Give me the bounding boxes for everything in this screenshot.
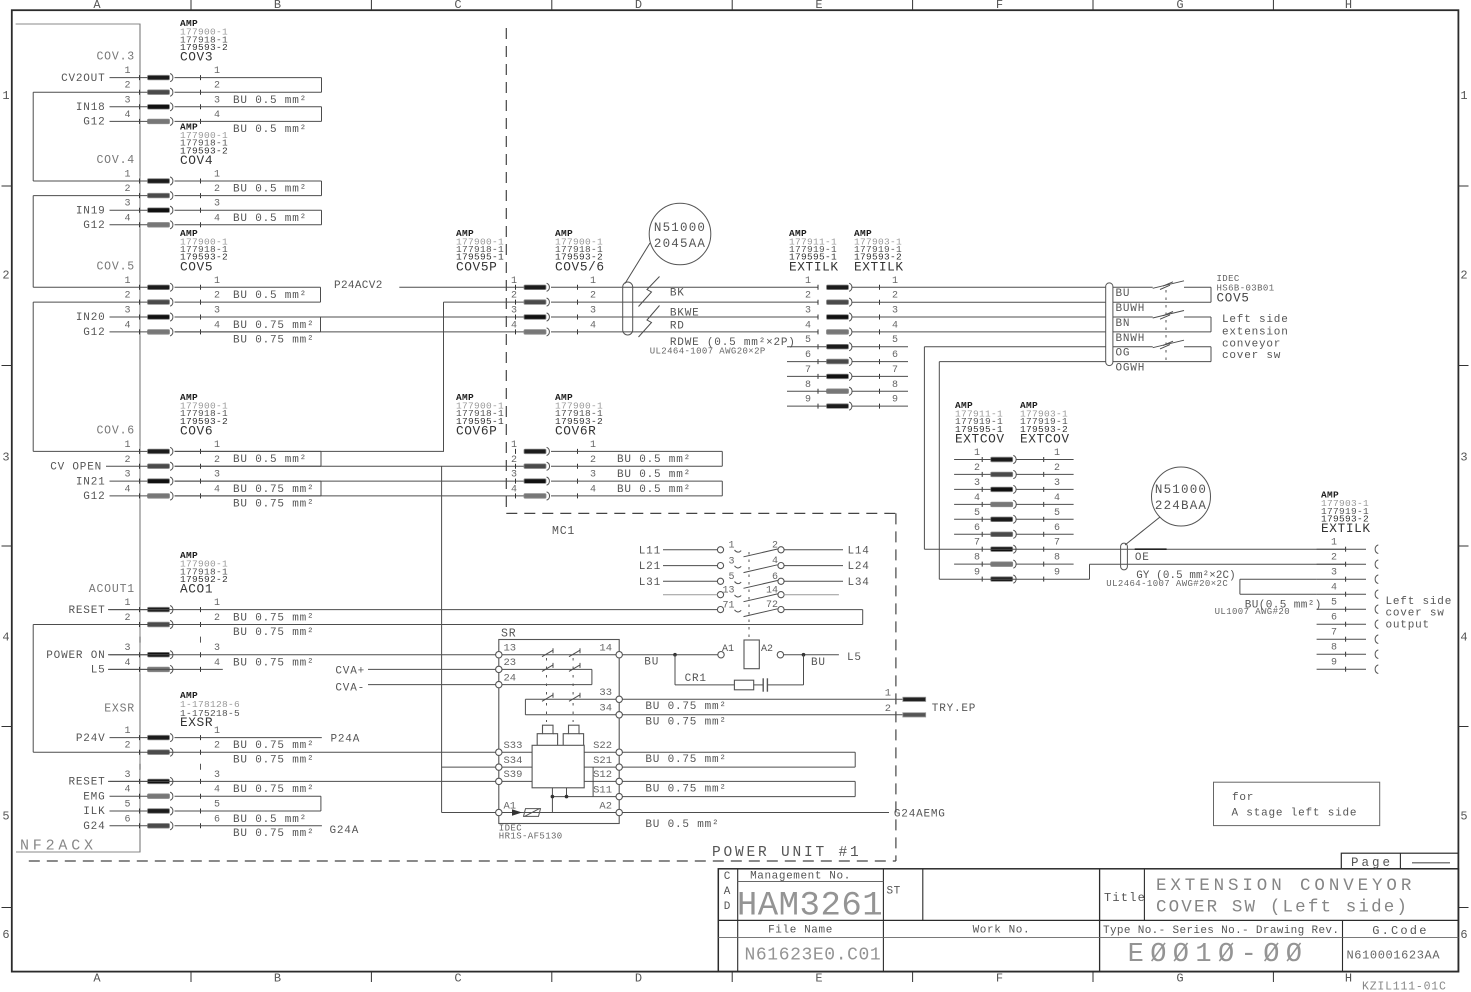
svg-text:5: 5 <box>124 800 130 811</box>
jumper loop COV5 1-2 <box>175 286 321 288</box>
svg-text:EMG: EMG <box>83 791 105 803</box>
svg-text:BU 0.5 mm²: BU 0.5 mm² <box>233 184 307 196</box>
EXTILK right stubs rows5-9 <box>852 346 908 348</box>
wire CV OPEN vertical x=441.6 down to SR <box>441 466 443 812</box>
jumper loop COV3 1-2 <box>175 77 322 79</box>
svg-text:N61623E0.C01: N61623E0.C01 <box>745 946 882 966</box>
svg-text:TRY.EP: TRY.EP <box>932 703 976 715</box>
svg-text:EXSR: EXSR <box>104 702 135 715</box>
svg-text:L31: L31 <box>639 577 661 589</box>
connector COV6P pin 2 <box>524 464 546 469</box>
svg-text:COV6R: COV6R <box>555 423 596 438</box>
connector EXSR pin 6 <box>148 824 170 829</box>
svg-text:BNWH: BNWH <box>1116 333 1146 345</box>
svg-text:G12: G12 <box>83 327 105 339</box>
svg-text:N51000: N51000 <box>1155 483 1207 497</box>
svg-text:72: 72 <box>766 600 778 611</box>
svg-text:2: 2 <box>590 455 596 466</box>
wires COV5/6 rows1-4 to EXTILK <box>551 286 818 288</box>
SR terminal S39 <box>496 778 502 784</box>
svg-text:3: 3 <box>124 199 130 210</box>
svg-text:CV OPEN: CV OPEN <box>50 461 102 473</box>
svg-text:14: 14 <box>766 585 778 596</box>
connector COV5 pin 1 <box>148 285 170 290</box>
connector EXTILK-out pin 5 <box>1345 607 1347 612</box>
svg-text:6: 6 <box>1331 613 1337 624</box>
svg-text:4: 4 <box>214 213 220 224</box>
svg-text:2: 2 <box>1460 269 1467 283</box>
svg-text:1: 1 <box>974 448 980 459</box>
svg-text:G24AEMG: G24AEMG <box>894 809 946 821</box>
svg-text:BUWH: BUWH <box>1116 303 1146 315</box>
connector EXSR pin 2 <box>148 750 170 755</box>
svg-text:3: 3 <box>590 306 596 317</box>
svg-text:RESET: RESET <box>68 605 105 617</box>
svg-text:3: 3 <box>124 470 130 481</box>
connector EXTCOV pin 5 <box>991 517 1013 522</box>
wire MC1 coil A2 to L5 <box>784 654 839 656</box>
wire to SR.A1 <box>442 812 496 814</box>
svg-text:3: 3 <box>805 306 811 317</box>
wire P24ACV2 COV5P.1 segment <box>399 286 524 288</box>
svg-text:cover sw: cover sw <box>1222 350 1281 362</box>
svg-text:BU: BU <box>811 657 826 669</box>
svg-text:EXTCOV: EXTCOV <box>955 432 1005 447</box>
svg-text:4: 4 <box>1460 631 1467 645</box>
svg-text:S39: S39 <box>504 769 523 781</box>
svg-text:NF2ACX: NF2ACX <box>20 838 97 855</box>
svg-text:9: 9 <box>892 395 898 406</box>
terminal TRY.EP 2 <box>903 713 926 717</box>
svg-text:COV3: COV3 <box>180 50 213 65</box>
connector COV6 pin 2 <box>148 464 170 469</box>
svg-text:1: 1 <box>124 276 130 287</box>
cable capsule to cover switch <box>1106 283 1113 366</box>
svg-text:HAM3261: HAM3261 <box>737 888 883 926</box>
EXTILK right wires rows1-4 to switch cable <box>852 286 1106 288</box>
contactor MC1 pole 5 <box>717 607 723 613</box>
svg-text:OGWH: OGWH <box>1116 362 1146 374</box>
svg-text:CR1: CR1 <box>685 673 707 685</box>
svg-text:4: 4 <box>214 658 220 669</box>
wire SR.33 to TRY.EP 1 <box>622 698 903 700</box>
SR terminal S11 <box>616 793 622 799</box>
connector COV6P pin 3 <box>524 479 546 484</box>
svg-text:UL2464-1007 AWG#20×2C: UL2464-1007 AWG#20×2C <box>1106 579 1228 589</box>
wire EXSR.2 to SR.S33 <box>33 751 495 753</box>
svg-text:5: 5 <box>1054 508 1060 519</box>
wire CV OPEN COV6.2 right <box>175 465 525 467</box>
jumper loop COV5 3-4 <box>175 316 321 318</box>
svg-text:Page: Page <box>1351 856 1393 870</box>
svg-text:BU 0.5 mm²: BU 0.5 mm² <box>617 454 691 466</box>
svg-text:S34: S34 <box>504 755 523 767</box>
svg-text:1: 1 <box>590 440 596 451</box>
svg-text:BU 0.75 mm²: BU 0.75 mm² <box>233 754 314 766</box>
svg-text:L34: L34 <box>848 577 870 589</box>
svg-text:IN20: IN20 <box>76 312 106 324</box>
svg-text:ST: ST <box>887 886 901 898</box>
page box <box>1341 853 1458 869</box>
connector EXSR pin 3 <box>148 779 170 784</box>
wire chain COV5.2 to COV6.1 <box>33 301 147 303</box>
svg-text:6: 6 <box>805 350 811 361</box>
svg-text:G24A: G24A <box>330 825 360 837</box>
wire chain COV4.2 to COV5.1 <box>33 195 147 197</box>
svg-text:G24: G24 <box>83 821 105 833</box>
svg-text:Title: Title <box>1104 891 1146 905</box>
svg-text:BU 0.75 mm²: BU 0.75 mm² <box>233 484 314 496</box>
svg-text:1: 1 <box>805 276 811 287</box>
svg-text:N51000: N51000 <box>654 221 706 235</box>
svg-text:COV5/6: COV5/6 <box>555 259 605 274</box>
svg-text:L5: L5 <box>847 652 862 664</box>
svg-text:2: 2 <box>511 455 517 466</box>
svg-text:C: C <box>454 972 461 986</box>
svg-text:4: 4 <box>1331 583 1337 594</box>
connector COV6P pin 1 <box>524 449 546 454</box>
svg-text:ACO1: ACO1 <box>180 582 213 597</box>
jumper loop SR S12-S11 <box>622 780 855 782</box>
svg-text:BU 0.5 mm²: BU 0.5 mm² <box>233 124 307 136</box>
connector EXTCOV pin 9 <box>991 577 1013 582</box>
wire RESET ACO1.1 to MC1.71 <box>108 609 718 611</box>
svg-text:BU 0.5 mm²: BU 0.5 mm² <box>617 469 691 481</box>
SR terminal 13 <box>496 652 502 658</box>
svg-text:1: 1 <box>124 440 130 451</box>
svg-text:L5: L5 <box>91 665 106 677</box>
svg-text:2: 2 <box>772 540 778 551</box>
SR terminal 23 <box>496 666 502 672</box>
svg-text:8: 8 <box>1054 553 1060 564</box>
svg-text:B: B <box>274 972 281 986</box>
connector COV3 pin 4 <box>148 119 170 124</box>
wire P24V stub <box>175 737 322 739</box>
SR terminal 24 <box>496 681 502 687</box>
connector EXTCOV pin 7 <box>991 547 1013 552</box>
connector COV4 pin 4 <box>148 223 170 228</box>
svg-text:3: 3 <box>214 199 220 210</box>
svg-text:4: 4 <box>805 320 811 331</box>
terminal TRY.EP 1 <box>903 697 926 701</box>
jumper loop COV3 3-4 <box>175 106 322 108</box>
svg-text:1: 1 <box>885 687 891 699</box>
SR A1-A2 row with varistor <box>502 812 616 814</box>
EXTCOV right stubs <box>1016 459 1074 461</box>
svg-text:3: 3 <box>1331 568 1337 579</box>
svg-text:BU 0.5 mm²: BU 0.5 mm² <box>645 819 719 831</box>
svg-text:B: B <box>274 0 281 12</box>
svg-text:4: 4 <box>214 785 220 796</box>
svg-text:RD: RD <box>670 320 685 332</box>
svg-text:2: 2 <box>124 741 130 752</box>
MC1 pole wires <box>663 549 718 551</box>
svg-text:BU 0.75 mm²: BU 0.75 mm² <box>645 783 726 795</box>
wire GY to EXTILK.2 <box>1090 563 1346 565</box>
connector EXTILK-out pin 2 <box>1345 562 1347 567</box>
svg-text:COV5: COV5 <box>180 259 213 274</box>
svg-text:5: 5 <box>2 810 9 824</box>
svg-text:H: H <box>1345 0 1352 12</box>
svg-text:CVA-: CVA- <box>335 683 365 695</box>
svg-text:4: 4 <box>214 484 220 495</box>
connector COV5P pin 4 <box>524 330 546 335</box>
svg-text:C: C <box>454 0 461 12</box>
svg-text:L21: L21 <box>639 561 661 573</box>
SR terminal S21 <box>616 764 622 770</box>
svg-text:4: 4 <box>2 631 9 645</box>
connector COV5 pin 2 <box>148 300 170 305</box>
callout leader 224BAA <box>1125 517 1160 545</box>
jumper loop COV6 1-2 <box>175 450 322 452</box>
svg-text:G12: G12 <box>83 117 105 129</box>
twisted pair mark RD/RDWE <box>639 306 660 338</box>
svg-text:L11: L11 <box>639 545 661 557</box>
svg-text:3: 3 <box>511 470 517 481</box>
contactor MC1 pole 1 <box>717 547 723 553</box>
svg-text:2: 2 <box>805 291 811 302</box>
svg-text:BU 0.5 mm²: BU 0.5 mm² <box>233 290 307 302</box>
svg-text:5: 5 <box>892 335 898 346</box>
connector EXTILK-out pin 6 <box>1345 622 1347 627</box>
svg-text:2: 2 <box>124 81 130 92</box>
switch mechanical link dashed <box>1165 290 1167 362</box>
svg-text:A: A <box>724 886 731 898</box>
svg-text:BU: BU <box>644 657 659 669</box>
EXTILK left stubs pins5-9 <box>787 346 827 348</box>
svg-text:BU 0.75 mm²: BU 0.75 mm² <box>645 701 726 713</box>
svg-text:BU: BU <box>1116 288 1131 300</box>
svg-text:N610001623AA: N610001623AA <box>1347 948 1441 962</box>
svg-text:G12: G12 <box>83 220 105 232</box>
switch pole at y 287 <box>1113 286 1153 288</box>
connector EXTILK pin 2 <box>827 300 849 305</box>
svg-text:3: 3 <box>124 306 130 317</box>
svg-text:P24A: P24A <box>331 733 361 745</box>
jumper loop COV6R 3-4 <box>551 480 722 482</box>
contactor MC1 pole 2 <box>717 563 723 569</box>
svg-text:COV.6: COV.6 <box>96 424 135 437</box>
twisted pair mark BK/BKWE <box>639 277 660 307</box>
svg-text:1: 1 <box>214 598 220 609</box>
svg-text:2: 2 <box>214 613 220 624</box>
svg-text:3: 3 <box>214 95 220 106</box>
connector EXTILK-out pin 4 <box>1345 592 1347 597</box>
SR terminal 34 <box>616 712 622 718</box>
connector COV6 pin 3 <box>148 479 170 484</box>
jumper loop COV4 3-4 <box>175 209 322 211</box>
svg-text:BU 0.75 mm²: BU 0.75 mm² <box>233 784 314 796</box>
svg-text:BU 0.5 mm²: BU 0.5 mm² <box>617 484 691 496</box>
svg-text:Left side: Left side <box>1222 314 1289 326</box>
svg-text:BU 0.75 mm²: BU 0.75 mm² <box>233 657 314 669</box>
svg-text:2: 2 <box>124 613 130 624</box>
svg-text:1: 1 <box>511 276 517 287</box>
svg-text:6: 6 <box>1054 523 1060 534</box>
svg-text:KZIL111-01C: KZIL111-01C <box>1362 981 1447 992</box>
connector COV6 pin 1 <box>148 449 170 454</box>
jumper loop SR S22-S21 <box>622 751 855 753</box>
wire COV6.1 to chain jog <box>175 450 445 452</box>
MC1 mechanical link dashed <box>748 552 750 639</box>
connector EXTILK-out pin 3 <box>1345 577 1347 582</box>
svg-text:8: 8 <box>974 553 980 564</box>
svg-text:3: 3 <box>214 643 220 654</box>
svg-text:1: 1 <box>1460 89 1467 103</box>
svg-text:2: 2 <box>1054 463 1060 474</box>
svg-text:BK: BK <box>670 288 685 300</box>
svg-text:S12: S12 <box>593 769 612 781</box>
svg-text:9: 9 <box>1331 658 1337 669</box>
svg-text:7: 7 <box>1331 628 1337 639</box>
svg-text:4: 4 <box>1054 493 1060 504</box>
svg-text:P24V: P24V <box>76 733 106 745</box>
wire COV5/6.2 from chain vertical <box>444 301 525 303</box>
svg-text:BU 0.5 mm²: BU 0.5 mm² <box>233 95 307 107</box>
svg-text:ILK: ILK <box>83 806 105 818</box>
connector EXTILK-out pin 1 <box>1345 547 1347 552</box>
svg-text:EXTCOV: EXTCOV <box>1020 432 1070 447</box>
svg-text:1: 1 <box>214 170 220 181</box>
title block <box>718 869 1458 972</box>
svg-text:6: 6 <box>1460 928 1467 942</box>
connector EXTILK-out pin 8 <box>1345 652 1347 657</box>
svg-text:A2: A2 <box>599 800 612 812</box>
svg-text:3: 3 <box>1054 478 1060 489</box>
connector EXTILK pin 4 <box>827 330 849 335</box>
wire POWER ON ACO1.3 to SR.13 <box>108 654 496 656</box>
wire SR.14 to MC1 coil A1 <box>622 654 718 656</box>
jumper loop COV4 1-2 <box>175 180 322 182</box>
svg-text:9: 9 <box>974 568 980 579</box>
unit NF2ACX boundary <box>16 24 140 852</box>
connector EXTCOV pin 6 <box>991 532 1013 537</box>
contactor MC1 pole 3 <box>717 578 723 584</box>
svg-text:1: 1 <box>214 440 220 451</box>
svg-text:2: 2 <box>892 291 898 302</box>
svg-text:23: 23 <box>504 657 517 669</box>
svg-text:H: H <box>1345 972 1352 986</box>
svg-text:BU 0.5 mm²: BU 0.5 mm² <box>233 454 307 466</box>
svg-text:COV5: COV5 <box>1217 292 1250 306</box>
svg-text:24: 24 <box>504 672 517 684</box>
svg-text:Work No.: Work No. <box>973 925 1031 937</box>
svg-text:S33: S33 <box>504 740 523 752</box>
svg-text:8: 8 <box>1331 643 1337 654</box>
svg-text:6: 6 <box>124 814 130 825</box>
SR internal wires <box>502 751 532 753</box>
wire chain COV3.2 to COV4.1 <box>33 91 147 93</box>
svg-text:C: C <box>724 871 731 883</box>
svg-text:BU 0.75 mm²: BU 0.75 mm² <box>233 613 314 625</box>
connector EXTILK pin 5 <box>827 344 849 349</box>
svg-text:3: 3 <box>124 643 130 654</box>
svg-text:RESET: RESET <box>68 777 105 789</box>
svg-text:POWER UNIT #1: POWER UNIT #1 <box>712 845 862 861</box>
SR terminal S12 <box>616 778 622 784</box>
svg-text:COV4: COV4 <box>180 153 213 168</box>
svg-text:S21: S21 <box>593 755 612 767</box>
wire G12 COV6.4 to COV6P.4 <box>175 495 525 497</box>
SR terminal S33 <box>496 749 502 755</box>
SR terminal A2 <box>616 809 622 815</box>
boundary line NF2ACX x=140 segments <box>139 24 141 73</box>
svg-text:E: E <box>815 0 822 12</box>
svg-text:output: output <box>1386 619 1430 631</box>
svg-text:5: 5 <box>214 800 220 811</box>
switch pole at y 317 <box>1113 316 1153 318</box>
svg-text:IN19: IN19 <box>76 205 106 217</box>
svg-text:5: 5 <box>728 572 734 583</box>
wire G12 COV5.4 to COV5P.4 <box>175 331 525 333</box>
svg-text:4: 4 <box>124 658 130 669</box>
svg-text:2: 2 <box>124 291 130 302</box>
cable capsule 224BAA <box>1121 543 1128 570</box>
svg-text:7: 7 <box>805 365 811 376</box>
svg-text:2: 2 <box>1331 553 1337 564</box>
svg-text:2: 2 <box>214 741 220 752</box>
svg-text:9: 9 <box>805 395 811 406</box>
svg-text:L24: L24 <box>848 561 870 573</box>
svg-text:4: 4 <box>214 110 220 121</box>
svg-text:BU 0.75 mm²: BU 0.75 mm² <box>233 498 314 510</box>
svg-text:4: 4 <box>124 213 130 224</box>
svg-text:UL1007 AWG#20: UL1007 AWG#20 <box>1215 607 1290 617</box>
svg-text:4: 4 <box>590 484 596 495</box>
connector ACO1 pin 2 <box>148 622 170 627</box>
jumper loop EXTILK-out 3-4 <box>1240 578 1317 580</box>
SR contact row 23-24 loop <box>502 668 592 670</box>
svg-text:6: 6 <box>974 523 980 534</box>
svg-text:COV.5: COV.5 <box>96 260 135 273</box>
connector EXSR pin 5 <box>148 809 170 814</box>
svg-text:4: 4 <box>892 320 898 331</box>
frame grid ticks <box>190 0 192 10</box>
SR mechanical link dashes <box>546 658 548 696</box>
svg-text:BU 0.75 mm²: BU 0.75 mm² <box>233 334 314 346</box>
svg-text:G: G <box>1176 972 1183 986</box>
connector EXTILK pin 8 <box>827 389 849 394</box>
svg-text:S22: S22 <box>593 740 612 752</box>
svg-text:2: 2 <box>974 463 980 474</box>
svg-text:5: 5 <box>805 335 811 346</box>
svg-text:5: 5 <box>974 508 980 519</box>
svg-text:cover sw: cover sw <box>1386 608 1445 620</box>
connector COV6P pin 4 <box>524 494 546 499</box>
svg-text:7: 7 <box>974 538 980 549</box>
connector COV3 pin 1 <box>148 75 170 80</box>
svg-text:D: D <box>724 901 731 913</box>
svg-text:BU 0.5 mm²: BU 0.5 mm² <box>233 814 307 826</box>
wire chain COV5/6.2 down to COV6 row1 (vertical x=443.5) <box>443 302 445 451</box>
svg-text:A2: A2 <box>761 644 773 655</box>
SR terminal A1 <box>496 809 502 815</box>
svg-text:BU 0.75 mm²: BU 0.75 mm² <box>645 754 726 766</box>
wire SR.A2 G24AEMG <box>622 812 889 814</box>
boundary POWER UNIT #1 dashed <box>505 28 507 513</box>
svg-text:G.Code: G.Code <box>1372 924 1428 938</box>
wire SR.34 to TRY.EP 2 <box>622 714 903 716</box>
connector ACO1 pin 1 <box>148 607 170 612</box>
svg-text:EXTILK: EXTILK <box>789 259 839 274</box>
svg-text:5: 5 <box>1331 598 1337 609</box>
svg-text:IN18: IN18 <box>76 102 106 114</box>
svg-text:EXTENSION CONVEYOR: EXTENSION CONVEYOR <box>1156 876 1415 896</box>
cable capsule 2045AA <box>623 282 633 335</box>
connector EXTILK-out pin 7 <box>1345 637 1347 642</box>
connector COV5P pin 1 <box>524 285 546 290</box>
svg-text:8: 8 <box>892 380 898 391</box>
